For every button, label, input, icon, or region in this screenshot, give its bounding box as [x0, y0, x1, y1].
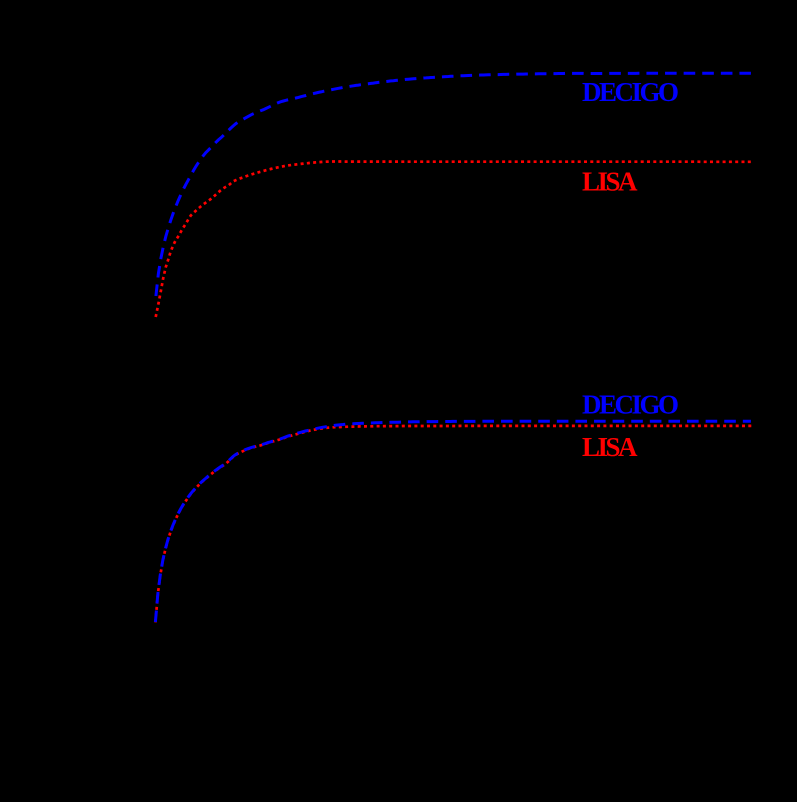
bottom panel DECIGO label — [582, 390, 678, 420]
svg-text:DECIGO: DECIGO — [582, 390, 678, 420]
top panel LISA label — [582, 167, 638, 197]
svg-text:LISA: LISA — [582, 167, 638, 197]
bottom panel DECIGO curve (blue dashed) — [155, 421, 751, 622]
top panel LISA curve (red dotted) — [156, 162, 754, 318]
svg-text:LISA: LISA — [582, 432, 638, 462]
bottom panel LISA curve (red dotted) — [155, 426, 753, 623]
top panel DECIGO curve (blue dashed) — [156, 73, 751, 296]
bottom panel LISA label — [582, 432, 638, 462]
svg-text:DECIGO: DECIGO — [582, 77, 678, 107]
top panel DECIGO label — [582, 77, 678, 107]
